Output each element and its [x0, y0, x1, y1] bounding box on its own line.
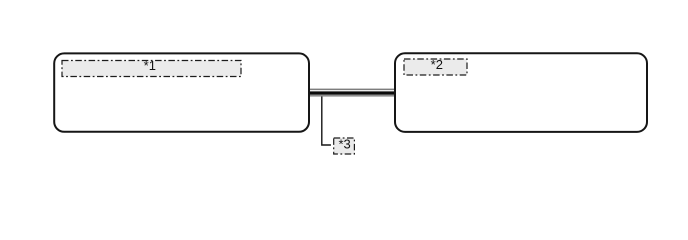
- svg-text:*3: *3: [338, 137, 350, 152]
- node *3 (label box): [334, 137, 355, 154]
- svg-text:*1: *1: [144, 58, 156, 73]
- wire (leader line to label *3): [322, 97, 331, 146]
- svg-text:*2: *2: [431, 57, 443, 72]
- node *1 (label box): [62, 58, 241, 77]
- block right (component 2 outline): [395, 53, 647, 132]
- block left (component 1 outline): [54, 53, 309, 131]
- node *2 (label box): [404, 57, 467, 75]
- wire (bus bar between blocks): [309, 89, 395, 97]
